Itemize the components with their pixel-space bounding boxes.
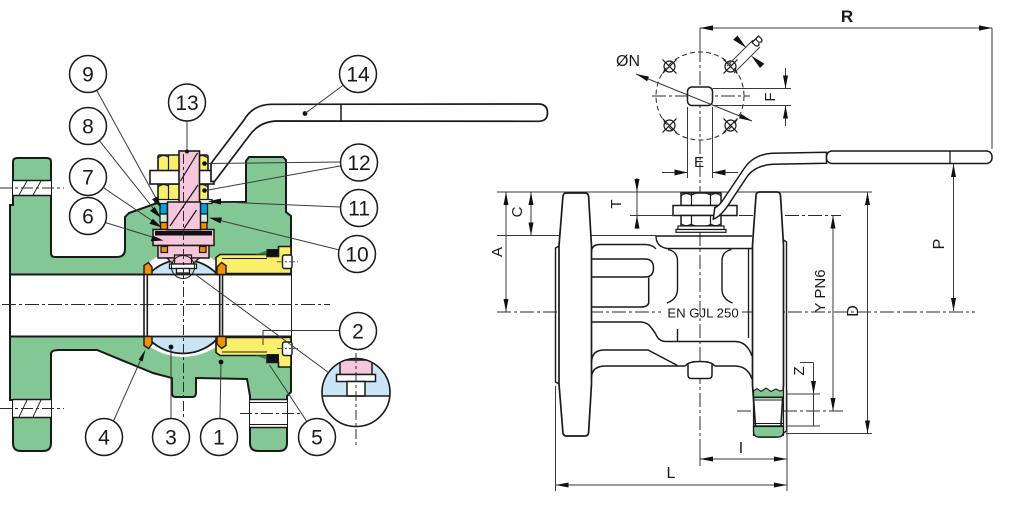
ISO mounting bolt circle (dashed)	[656, 52, 744, 140]
right flange plate	[753, 192, 784, 437]
bonnet top line	[656, 235, 752, 237]
barrel left wall	[648, 278, 650, 304]
lower hex nut	[681, 216, 721, 227]
bolt hole bottom-left	[663, 119, 677, 133]
leader 13 with dot	[186, 122, 188, 152]
stem tip block (pink)	[175, 255, 192, 264]
bolt hole bottom-right	[724, 119, 738, 133]
bore (flow passage)	[11, 275, 291, 337]
leader 4 with arrow	[114, 357, 143, 421]
grip end line	[340, 104, 342, 121]
extension line body top	[497, 235, 559, 237]
svg-text:4: 4	[98, 427, 110, 450]
body seal top (black)	[267, 250, 279, 257]
gland nut upper (yellow)	[158, 155, 208, 171]
barrel bottom line	[656, 334, 753, 357]
stem seal right lower (orange)	[200, 247, 207, 253]
leader 12 (two branches, dots on nuts)	[206, 162, 341, 164]
leader 10 with arrow	[212, 219, 340, 251]
body bottom outline	[592, 366, 686, 377]
gland nut lower (yellow)	[158, 184, 208, 202]
thread crest dark mark top	[255, 251, 267, 255]
seat ring top-right (orange)	[217, 263, 226, 275]
packing ring left (blue)	[160, 202, 168, 214]
bolt hole lines	[754, 397, 784, 399]
handle lever (bent bar)	[211, 104, 548, 182]
stem hatch lines	[181, 153, 198, 181]
thread line bottom insert	[222, 351, 267, 353]
svg-text:3: 3	[165, 427, 177, 450]
svg-text:F: F	[762, 92, 779, 101]
dimension Y PN6	[832, 216, 834, 412]
stem upper column (pink)	[179, 151, 200, 203]
valve body (green cast iron)	[10, 157, 291, 451]
leader 9 with arrow	[97, 90, 160, 205]
svg-text:10: 10	[345, 244, 368, 267]
bolt hole top-left	[663, 60, 677, 74]
flange bolt axis bottom-left	[0, 408, 64, 410]
dimension T	[630, 215, 674, 217]
leader 8 with arrow	[99, 141, 159, 216]
stem tang (pink trapezoid)	[167, 258, 199, 264]
ISO pad plate	[673, 206, 737, 216]
stem nut stack: top hex nut	[681, 193, 721, 206]
bottom-right flange bolt band	[250, 400, 287, 428]
left flange bolt band top	[13, 181, 51, 196]
left flange raised face	[556, 246, 560, 384]
seat detail: tang	[347, 382, 365, 397]
svg-text:D: D	[845, 305, 862, 317]
svg-text:14: 14	[346, 64, 370, 87]
ball top cap	[148, 260, 217, 275]
gland washer (thin)	[155, 200, 212, 204]
upper hub line	[592, 245, 657, 253]
svg-text:8: 8	[82, 116, 94, 139]
dimension I	[699, 440, 701, 466]
dimension P	[953, 164, 955, 311]
svg-text:EN GJL 250: EN GJL 250	[667, 306, 738, 321]
hub tab lower with chamfer	[592, 350, 678, 366]
drain boss	[686, 362, 715, 367]
svg-text:C: C	[509, 206, 526, 217]
seat ring top-left (orange)	[144, 263, 152, 275]
bonnet corner fillet	[656, 236, 752, 249]
svg-text:Y PN6: Y PN6	[812, 269, 829, 312]
svg-text:E: E	[694, 154, 704, 171]
thread line top insert	[222, 258, 267, 260]
right view: left flange plate	[559, 193, 592, 436]
thread crest dark mark bottom	[255, 356, 267, 360]
flange bolt plug top-right	[283, 255, 293, 269]
seat detail: stem tip pink	[340, 360, 372, 375]
seal right (orange)	[200, 223, 207, 230]
leader 3 with dot	[170, 347, 172, 419]
dimension F extension+arrows	[713, 88, 792, 90]
svg-text:7: 7	[82, 167, 94, 190]
stem mid section (pink, wide)	[168, 202, 201, 230]
svg-text:T: T	[608, 199, 625, 208]
leader 6 with arrow	[106, 223, 161, 240]
callout circles left view	[70, 56, 378, 456]
svg-text:2: 2	[352, 321, 364, 344]
stem washer	[678, 226, 724, 230]
svg-text:5: 5	[311, 427, 323, 450]
leader 14	[305, 85, 344, 114]
thrust seal (black band)	[155, 231, 212, 236]
bolt hole green bottom	[754, 427, 784, 438]
seat detail: washer	[337, 375, 376, 382]
seal left (orange)	[161, 223, 168, 230]
flange bolt plug bottom-right	[283, 342, 293, 356]
threaded end insert top (yellow)	[216, 247, 291, 274]
body seal bottom (black)	[267, 355, 279, 363]
centerline horizontal left view	[2, 304, 330, 306]
stem seal left lower (orange)	[161, 247, 168, 253]
bolt hole top-right	[724, 60, 738, 74]
handle lever right view	[713, 152, 826, 219]
svg-text:A: A	[489, 247, 506, 257]
stem vertical centerline	[183, 154, 185, 418]
svg-text:P: P	[931, 239, 948, 250]
dimension R line	[700, 27, 992, 29]
leader 1 with dot	[220, 362, 221, 419]
seat ring bottom-right (orange)	[217, 337, 226, 349]
packing ring right (blue)	[200, 202, 208, 214]
leader 11 with arrow	[211, 202, 341, 208]
svg-text:Z: Z	[791, 366, 808, 375]
dimension N leader diagonal	[636, 74, 752, 121]
stem lower section (pink)	[158, 246, 209, 259]
dimension C	[530, 192, 532, 236]
hub tab upper	[592, 259, 654, 277]
handle flat end (white plate)	[150, 171, 214, 185]
ball slot tang	[177, 269, 190, 274]
leader 5	[270, 365, 307, 421]
detail connector line	[194, 274, 329, 373]
hub tab middle	[592, 303, 649, 307]
thrust washer at ball	[170, 264, 197, 269]
dimension E arrows	[662, 172, 688, 174]
handle dot (item 14 target)	[303, 111, 308, 116]
bolt hole bottom right flange: green break-out top	[754, 388, 784, 397]
stem flange (pink)	[153, 230, 214, 246]
svg-text:12: 12	[347, 152, 370, 175]
dimension B slot lines	[727, 40, 753, 66]
leader 7 with arrow	[103, 188, 159, 226]
dimension A	[505, 192, 507, 312]
svg-text:6: 6	[82, 206, 94, 229]
svg-text:13: 13	[175, 92, 198, 115]
washer right (pale green)	[200, 214, 208, 223]
svg-text:R: R	[841, 7, 853, 26]
svg-text:11: 11	[348, 198, 370, 221]
barrel right wall	[748, 249, 750, 338]
detail circle (seat detail bubble)	[320, 334, 392, 446]
svg-text:L: L	[667, 465, 676, 482]
dimension E extension lines	[687, 107, 689, 178]
svg-text:1: 1	[213, 427, 225, 450]
extension line pad top	[497, 191, 872, 193]
stem head square	[688, 87, 713, 106]
ball bottom cap	[147, 337, 220, 354]
ball cavity	[144, 252, 223, 357]
dimension Z	[800, 362, 814, 364]
svg-text:B: B	[748, 32, 767, 51]
svg-text:I: I	[739, 440, 743, 457]
handle grip right view	[827, 151, 993, 164]
svg-text:9: 9	[82, 64, 94, 87]
threaded end insert bottom (yellow)	[216, 338, 291, 368]
cavity wall lines	[143, 275, 145, 337]
bolt hole side walls	[753, 390, 755, 436]
seat ring bottom-left (orange)	[144, 337, 152, 349]
dimension D	[786, 433, 872, 435]
leader 2	[263, 331, 340, 346]
left flange bolt band bottom	[13, 400, 51, 418]
main horizontal axis	[497, 48, 975, 457]
svg-text:ØN: ØN	[616, 53, 640, 70]
washer left (pale green)	[160, 214, 168, 223]
flange bolt axis top-left	[0, 187, 64, 189]
stem neck right	[722, 250, 733, 304]
stem neck left	[667, 250, 678, 304]
ball port edges	[146, 275, 148, 337]
dimension L	[555, 386, 557, 491]
right flange raised face	[784, 240, 787, 433]
detail marker circle at stem/ball joint	[172, 256, 195, 279]
